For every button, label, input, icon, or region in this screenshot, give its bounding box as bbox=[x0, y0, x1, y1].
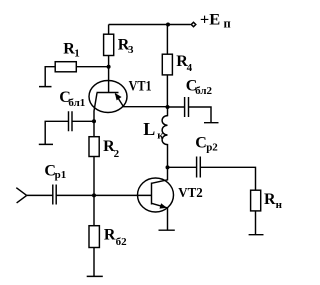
svg-text:R: R bbox=[104, 227, 116, 244]
svg-text:б2: б2 bbox=[116, 236, 128, 248]
svg-text:п: п bbox=[224, 17, 231, 31]
svg-text:3: 3 bbox=[128, 44, 134, 56]
svg-text:р2: р2 bbox=[206, 142, 218, 154]
svg-text:к: к bbox=[157, 130, 164, 142]
svg-text:+E: +E bbox=[200, 12, 220, 29]
svg-text:р1: р1 bbox=[55, 169, 67, 181]
svg-text:бл2: бл2 bbox=[195, 85, 212, 97]
svg-text:1: 1 bbox=[74, 48, 80, 60]
svg-text:R: R bbox=[264, 191, 276, 208]
svg-text:2: 2 bbox=[114, 148, 120, 160]
svg-text:бл1: бл1 bbox=[68, 97, 85, 109]
svg-text:VT2: VT2 bbox=[178, 185, 203, 200]
svg-text:VT1: VT1 bbox=[129, 79, 152, 95]
svg-text:н: н bbox=[276, 199, 283, 211]
svg-text:C: C bbox=[195, 134, 207, 151]
svg-text:4: 4 bbox=[187, 62, 193, 74]
svg-text:L: L bbox=[143, 119, 155, 139]
